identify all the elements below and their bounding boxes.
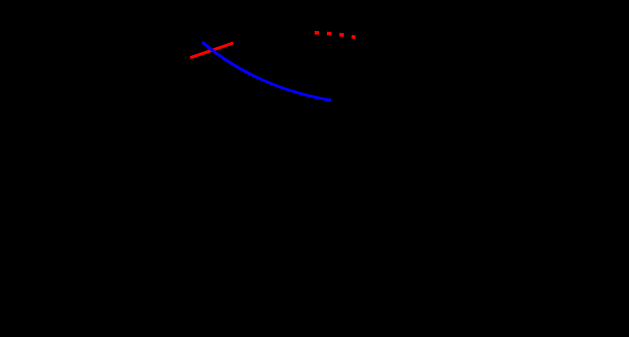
red solid line (supply segment) xyxy=(190,43,233,58)
red dashed curve (partial) xyxy=(315,33,356,38)
blue curve (demand curve) xyxy=(202,42,331,100)
